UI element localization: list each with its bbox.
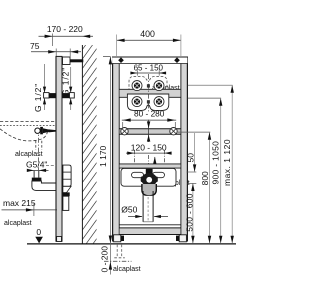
drain bracket taper <box>63 186 71 192</box>
svg-text:800: 800 <box>200 171 210 185</box>
drain bracket upper <box>63 165 71 186</box>
drain axis dash-dot <box>38 128 40 171</box>
drain bracket clamp black <box>63 192 70 196</box>
svg-text:75: 75 <box>30 41 40 51</box>
1 170 top tick <box>103 56 110 58</box>
G 1/2 rear fitting black body <box>63 93 70 98</box>
dimension 50 <box>185 133 196 172</box>
left frame post <box>112 57 120 242</box>
post bottom cap (side view) <box>57 237 62 242</box>
dimension 400 <box>117 29 181 56</box>
bottom bar <box>120 228 181 235</box>
drain pipe vertical <box>34 171 39 178</box>
center fixing marks <box>147 84 150 87</box>
dimension 65 - 150 <box>130 63 166 75</box>
dimension 1 170 line <box>109 57 111 275</box>
washbasin dashed rim line 2 <box>0 125 56 127</box>
Ø50 arrows <box>128 215 168 218</box>
svg-text:400: 400 <box>140 29 155 39</box>
top wall bracket block <box>63 57 71 65</box>
svg-text:0 - 200: 0 - 200 <box>100 246 110 273</box>
G 1/2 rear converging arrows <box>69 87 72 93</box>
svg-text:80 - 280: 80 - 280 <box>134 109 165 119</box>
svg-text:max 215: max 215 <box>3 198 36 208</box>
left foot <box>114 235 121 242</box>
washbasin dashed rim line 1 <box>0 121 56 123</box>
armature center axis <box>148 155 150 170</box>
datum triangle <box>35 237 43 244</box>
watermark alcaplast right top <box>152 85 180 92</box>
dimension 170 - 220 <box>39 24 94 46</box>
dimension 80 - 280 <box>122 109 176 128</box>
floor line <box>27 243 236 245</box>
wall hatching <box>82 30 97 260</box>
right frame post <box>180 57 188 242</box>
water connection circles row 2 <box>132 97 164 107</box>
lower crossbar <box>120 164 181 169</box>
tap connection stem to post <box>49 129 57 132</box>
bottom bar thin top line <box>120 224 181 226</box>
top bar <box>112 57 187 64</box>
rail left bolt <box>121 128 128 135</box>
svg-text:G 1/2": G 1/2" <box>33 83 43 112</box>
svg-text:500 - 600: 500 - 600 <box>185 193 195 232</box>
svg-text:max. 1 120: max. 1 120 <box>222 139 232 186</box>
G 1/2 rear connection leader <box>70 67 72 110</box>
water connection circles row 1 <box>132 81 164 91</box>
tap connection ring <box>35 128 40 133</box>
svg-text:alcaplast: alcaplast <box>4 220 32 227</box>
drain plate right slot <box>153 172 165 177</box>
washbasin dashed bowl curve <box>0 129 48 141</box>
dimension 75 <box>30 41 81 57</box>
wall face line <box>81 45 83 244</box>
G5/4 dimension arrows <box>28 169 49 171</box>
svg-text:50: 50 <box>185 153 195 163</box>
drain fitting body <box>141 173 157 186</box>
0 - 200 bottom arrow <box>109 262 112 270</box>
G 1/2 front connection leader <box>44 64 46 110</box>
armature up arrow <box>153 157 156 169</box>
tap connection valve body <box>40 127 43 134</box>
G 1/2 front fitting white cap <box>44 93 49 98</box>
svg-text:170 - 220: 170 - 220 <box>47 24 83 34</box>
svg-text:1 170: 1 170 <box>98 145 108 167</box>
right foot <box>179 235 186 242</box>
frame post (side view) <box>56 56 63 242</box>
upper crossbar <box>120 89 181 97</box>
max extension dash-dot line <box>104 260 132 262</box>
svg-text:alcaplast: alcaplast <box>113 266 141 273</box>
washbasin mounting rail <box>120 128 181 134</box>
watermark alcaplast bottom <box>113 266 141 273</box>
dimension 500 - 600 <box>185 183 197 243</box>
drain bracket lower box <box>63 196 69 210</box>
watermark alcaplast left <box>15 151 43 158</box>
washbasin drain dashed outline <box>35 141 37 150</box>
drain fitting cap <box>146 169 153 175</box>
svg-text:120 - 150: 120 - 150 <box>131 142 167 152</box>
watermark alcaplast right mid <box>162 180 190 187</box>
upper assembly axis <box>147 74 149 113</box>
max 215 dimension line <box>2 209 58 211</box>
G 1/2 rear fitting white cap <box>70 93 75 98</box>
drain pipe nut <box>32 178 42 181</box>
rail right bolt <box>170 128 177 135</box>
watermark alcaplast lower-left <box>4 220 32 227</box>
top bar left bolt <box>118 57 124 63</box>
drain elbow <box>32 181 56 190</box>
drain mounting plate <box>121 168 176 186</box>
svg-text:0: 0 <box>36 227 41 237</box>
1 170 bottom arrow <box>109 236 112 244</box>
G 1/2 front fitting black body <box>49 93 56 98</box>
upper connection dashed plate <box>129 76 167 91</box>
svg-text:900 - 1050: 900 - 1050 <box>211 141 221 185</box>
drain cup <box>142 184 156 196</box>
dimension max. 1 120 <box>188 85 234 243</box>
lower connection plate <box>127 94 168 110</box>
top wall bracket rod <box>70 59 83 62</box>
dimension 900 - 1050 <box>188 98 223 243</box>
svg-text:G5/4": G5/4" <box>26 160 47 170</box>
svg-text:G 1/2": G 1/2" <box>61 67 71 96</box>
dimension 800 <box>178 132 211 243</box>
top bar right bolt <box>174 57 180 63</box>
drain plate left slot <box>132 172 144 177</box>
G5/4 dashed leader <box>46 164 56 166</box>
rail center height marker <box>147 120 150 142</box>
drain tube <box>143 191 153 222</box>
svg-text:Ø50: Ø50 <box>121 204 137 214</box>
dimension 120 - 150 <box>126 142 172 171</box>
leg extension dashed lines <box>116 245 118 258</box>
G 1/2 front converging arrows <box>43 87 46 93</box>
1 170 top arrow <box>109 57 112 65</box>
